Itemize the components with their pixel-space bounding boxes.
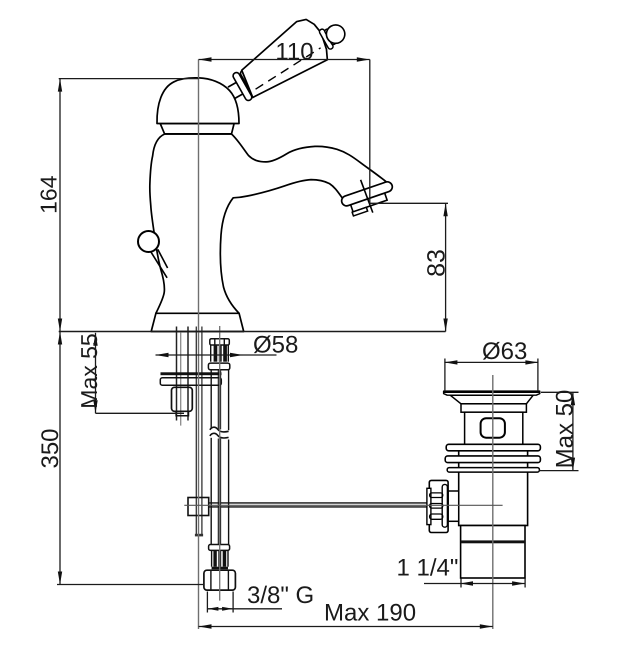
- drain square hole: [481, 418, 505, 438]
- faucet body with spout: [150, 134, 389, 313]
- drain upper body: [465, 412, 523, 444]
- tailpiece band: [461, 540, 525, 543]
- nut lower step: [176, 411, 188, 415]
- svg-text:Ø58: Ø58: [253, 332, 298, 359]
- drain flange: [450, 395, 533, 404]
- svg-text:1 1/4": 1 1/4": [397, 555, 459, 582]
- svg-text:Max 55: Max 55: [76, 333, 102, 408]
- svg-text:350: 350: [37, 428, 64, 468]
- collar ring 1: [232, 71, 253, 101]
- dimension 1 1/4 inch: [460, 579, 462, 588]
- side pop-up lever knob: [138, 231, 159, 252]
- drain tailpiece: [461, 526, 525, 579]
- handle stub: [230, 81, 245, 97]
- lift rod end cap: [195, 534, 203, 537]
- drain lower body: [459, 446, 528, 526]
- centerline hose: [219, 326, 221, 601]
- centerline faucet: [198, 60, 200, 630]
- svg-text:110: 110: [275, 39, 313, 66]
- svg-text:3/8" G: 3/8" G: [247, 582, 314, 609]
- dimension diameter 63: [444, 359, 446, 392]
- pop-up lift rod: [195, 327, 197, 536]
- neck ring a: [319, 28, 334, 50]
- hose lower collar: [209, 545, 230, 551]
- dimension 83: [370, 202, 448, 204]
- threaded mounting stud: [176, 327, 178, 421]
- faucet base skirt: [151, 313, 244, 331]
- drain plate 1: [446, 444, 540, 451]
- dimension 350: [59, 332, 61, 585]
- dimension Max 190: [199, 626, 493, 628]
- washer bar plate: [161, 372, 222, 375]
- collar ring 2: [239, 69, 258, 96]
- spout aerator tip: [340, 180, 397, 218]
- lift rod clamp: [188, 498, 209, 516]
- drain plate 2: [445, 456, 540, 463]
- lever blade: [231, 14, 334, 101]
- mounting nut: [172, 387, 193, 411]
- extension line top (dome apex): [59, 78, 199, 80]
- centerline drain: [492, 375, 494, 629]
- tick slash through aerator: [361, 180, 373, 213]
- dome cap: [157, 78, 239, 124]
- dimension Max 50: [541, 391, 579, 393]
- hose threaded section: [210, 345, 212, 362]
- side pop-up lever stem: [151, 252, 167, 278]
- svg-text:164: 164: [36, 175, 62, 214]
- dimension 164: [59, 79, 61, 332]
- dashed handle axis: [254, 48, 323, 89]
- svg-text:83: 83: [423, 249, 451, 277]
- lower threaded section: [211, 550, 213, 566]
- supply hose top fitting: [210, 339, 230, 345]
- handle group (lever, collar, ball): [217, 3, 353, 109]
- drain plate 3: [447, 468, 539, 473]
- drain collar: [461, 404, 526, 412]
- centerline horizontal rod: [184, 504, 502, 506]
- hose tube upper segment: [210, 370, 212, 429]
- knurled rod nut collar: [448, 491, 459, 521]
- dimension 3/8 G: [206, 592, 208, 613]
- hose tube lower segment: [210, 438, 212, 545]
- horizontal pop-up rod: [209, 502, 427, 504]
- ball finial: [323, 22, 348, 47]
- svg-text:Ø63: Ø63: [482, 338, 527, 365]
- countertop reference line: [59, 331, 446, 333]
- dark band above nut: [212, 567, 228, 570]
- mounting washer plate: [160, 378, 221, 385]
- hose break symbol: [210, 427, 229, 432]
- dimension Max 55: [95, 333, 97, 414]
- svg-text:Max 50: Max 50: [552, 390, 579, 469]
- svg-text:Max 190: Max 190: [324, 600, 416, 627]
- neck band under dome: [160, 124, 234, 134]
- dimension 110: [199, 59, 370, 61]
- dimension diameter 58: [156, 354, 277, 356]
- 3/8 hex nut: [204, 570, 236, 590]
- stud inner line: [180, 332, 182, 426]
- knurled rod nut: [429, 480, 448, 532]
- hose collar nut: [208, 363, 229, 370]
- neck ring b: [324, 28, 336, 45]
